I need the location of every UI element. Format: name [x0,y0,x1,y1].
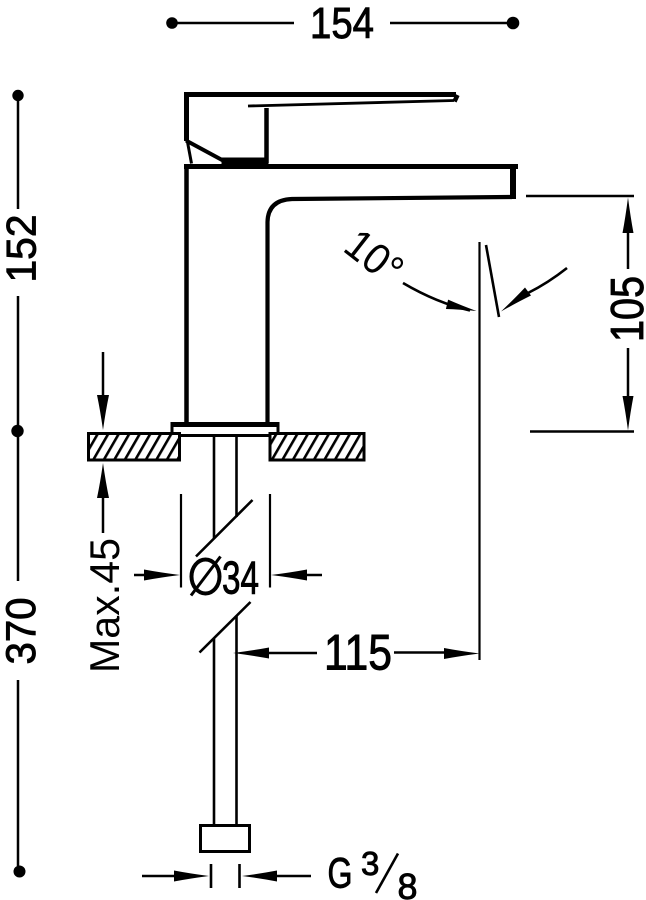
svg-text:370: 370 [0,598,44,665]
svg-text:115: 115 [324,625,392,681]
svg-text:105: 105 [601,276,646,342]
svg-text:G: G [328,850,353,898]
svg-text:3: 3 [361,845,379,882]
svg-text:34: 34 [222,552,259,604]
svg-text:152: 152 [0,215,45,283]
svg-text:Max.45: Max.45 [81,538,128,673]
svg-text:154: 154 [310,0,374,48]
svg-text:8: 8 [398,866,418,900]
